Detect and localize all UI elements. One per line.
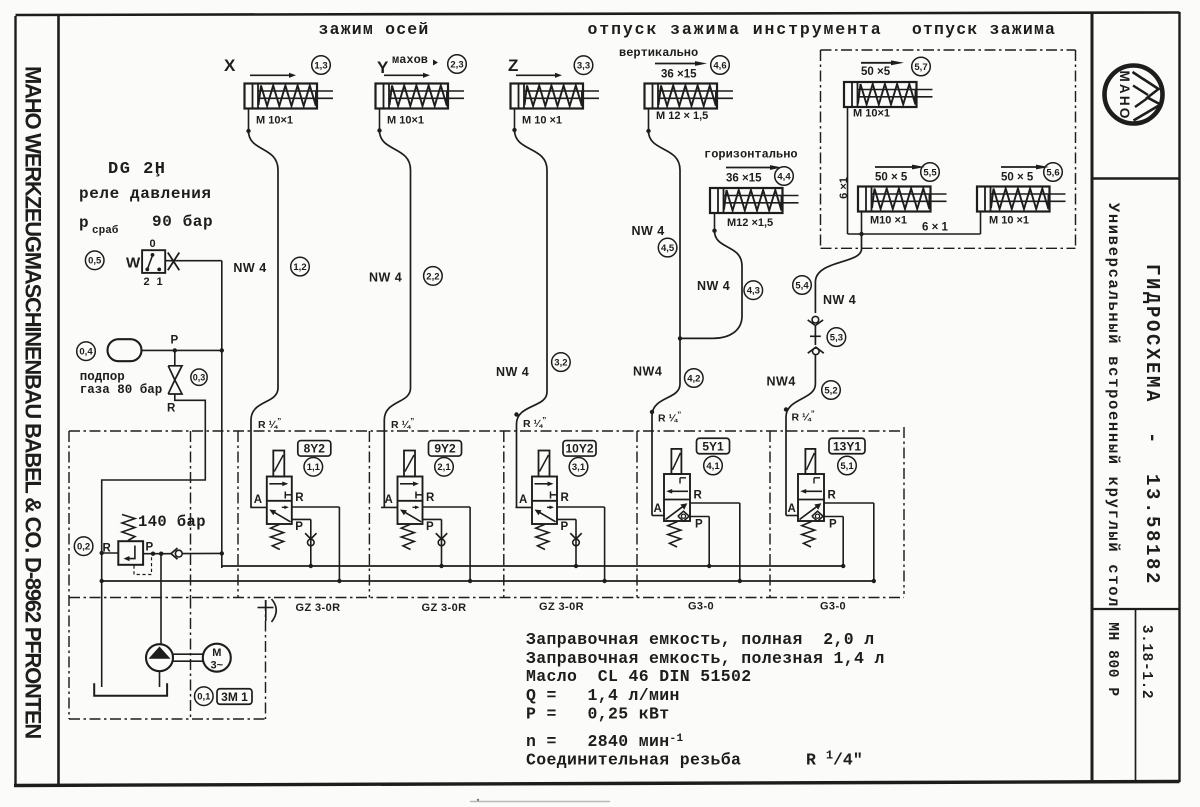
svg-text:X: X — [224, 56, 236, 75]
svg-text:R 1/4": R 1/4" — [806, 749, 863, 770]
svg-text:M 10 ×1: M 10 ×1 — [989, 215, 1029, 227]
tank — [94, 683, 167, 695]
svg-text:5,1: 5,1 — [840, 461, 854, 472]
wire from 5.x box down to valve 5.1 — [815, 234, 861, 313]
svg-text:A: A — [519, 494, 527, 506]
wire junction down to valve 4.1 — [652, 338, 680, 515]
wire Z cylinder to valve 3.1 — [515, 130, 548, 507]
svg-text:M 10×1: M 10×1 — [853, 108, 890, 120]
svg-text:P: P — [426, 521, 434, 533]
cylinder 5.5 — [875, 166, 914, 168]
svg-text:Y: Y — [377, 58, 389, 77]
svg-text:GZ 3-0R: GZ 3-0R — [422, 602, 467, 614]
svg-text:A: A — [654, 503, 662, 515]
svg-text:Универсальный встроенный кругл: Универсальный встроенный круглый стол — [1104, 203, 1122, 608]
svg-text:G3-0: G3-0 — [688, 601, 714, 613]
svg-text:МН 800 Р: МН 800 Р — [1104, 622, 1120, 696]
svg-text:M 10×1: M 10×1 — [256, 115, 293, 127]
svg-text:R: R — [694, 490, 703, 502]
return bus R — [102, 580, 874, 582]
svg-text:36 ×15: 36 ×15 — [661, 69, 697, 81]
svg-text:1: 1 — [157, 276, 163, 288]
relief valve 0.2 — [74, 537, 93, 556]
svg-text:махов: махов — [392, 53, 428, 67]
svg-text:5,7: 5,7 — [914, 62, 927, 73]
svg-text:6 × 1: 6 × 1 — [922, 222, 949, 234]
svg-text:n = 2840 мин-1: n = 2840 мин-1 — [526, 732, 683, 751]
svg-text:подпор: подпор — [80, 370, 125, 384]
svg-text:MAHO: MAHO — [1117, 70, 1132, 120]
svg-text:3,3: 3,3 — [577, 61, 590, 72]
svg-text:NW 4: NW 4 — [697, 279, 730, 293]
svg-text:сраб: сраб — [92, 224, 119, 237]
svg-text:GZ 3-0R: GZ 3-0R — [539, 601, 584, 613]
title block MAHO logo — [1092, 177, 1180, 180]
svg-text:0,4: 0,4 — [79, 347, 93, 358]
svg-text:R: R — [561, 492, 570, 504]
svg-text:W: W — [126, 255, 141, 272]
svg-text:Масло CL 46 DIN 51502: Масло CL 46 DIN 51502 — [526, 667, 752, 686]
svg-text:8Y2: 8Y2 — [304, 442, 326, 456]
shut-off valve 0.3 — [174, 350, 176, 365]
svg-text:P: P — [829, 519, 837, 531]
svg-text:P = 0,25 кВт: P = 0,25 кВт — [526, 705, 670, 724]
svg-text:р: р — [79, 214, 89, 232]
accumulator 0.4 — [77, 342, 96, 361]
breather symbol — [265, 600, 267, 621]
svg-text:DG 2Ḩ: DG 2Ḩ — [108, 160, 167, 179]
svg-text:5Y1: 5Y1 — [702, 439, 724, 453]
title block middle: drawing title — [1092, 608, 1180, 610]
svg-text:4,6: 4,6 — [713, 60, 726, 71]
return wire from 0.3 to tank line — [102, 394, 206, 687]
svg-text:10Y2: 10Y2 — [565, 442, 593, 456]
svg-text:9Y2: 9Y2 — [434, 442, 456, 456]
svg-text:R: R — [295, 492, 304, 504]
svg-text:Заправочная емкость, полезная: Заправочная емкость, полезная 1,4 л — [526, 649, 885, 668]
svg-text:13Y1: 13Y1 — [833, 439, 861, 453]
svg-text:NW 4: NW 4 — [369, 271, 402, 285]
svg-text:1,2: 1,2 — [293, 262, 306, 273]
svg-text:горизонтально: горизонтально — [704, 148, 798, 162]
svg-text:4,4: 4,4 — [777, 171, 791, 182]
svg-text:A: A — [254, 494, 262, 506]
svg-text:36 ×15: 36 ×15 — [726, 173, 762, 185]
dash-dot enclosure clamp release group — [821, 49, 1076, 51]
svg-text:3,1: 3,1 — [572, 462, 586, 473]
svg-text:2: 2 — [144, 276, 150, 288]
valve 1.1 solenoid 8Y2 — [273, 451, 284, 477]
svg-text:50 ×5: 50 ×5 — [861, 66, 891, 78]
svg-text:M 12 × 1,5: M 12 × 1,5 — [656, 110, 708, 122]
svg-text:A: A — [788, 503, 796, 515]
wire X cylinder to valve 1.1 — [249, 131, 279, 507]
valve 3.1 solenoid 10Y2 — [539, 451, 550, 477]
svg-text:G3-0: G3-0 — [820, 601, 846, 613]
svg-text:50 × 5: 50 × 5 — [1001, 172, 1034, 184]
valve 5.1 solenoid 13Y1 — [805, 449, 815, 474]
svg-text:Соединительная резьба: Соединительная резьба — [526, 751, 741, 770]
svg-text:P: P — [171, 335, 179, 347]
svg-text:R: R — [426, 492, 435, 504]
svg-text:ГИДРОСХЕМА - 13.58182: ГИДРОСХЕМА - 13.58182 — [1141, 264, 1163, 586]
svg-text:NW 4: NW 4 — [823, 293, 856, 307]
svg-text:5,3: 5,3 — [830, 333, 843, 344]
svg-text:M 10 ×1: M 10 ×1 — [522, 115, 562, 127]
svg-text:5,5: 5,5 — [923, 167, 937, 178]
svg-text:M: M — [212, 647, 221, 659]
svg-text:4,3: 4,3 — [747, 286, 760, 297]
cylinder 5.6 — [1001, 166, 1038, 168]
svg-text:2,3: 2,3 — [450, 59, 463, 70]
wire switch to riser — [165, 260, 222, 262]
svg-text:M12 ×1,5: M12 ×1,5 — [727, 217, 773, 229]
svg-text:NW4: NW4 — [633, 365, 662, 379]
svg-text:реле давления: реле давления — [79, 185, 212, 203]
svg-text:Заправочная емкость, полная 2: Заправочная емкость, полная 2,0 л — [526, 630, 875, 649]
svg-text:NW4: NW4 — [767, 375, 796, 389]
svg-text:5,4: 5,4 — [795, 280, 809, 291]
pump 0.1 — [146, 644, 173, 671]
svg-text:P: P — [295, 521, 303, 533]
bus wire inside box — [848, 233, 981, 235]
svg-text:3~: 3~ — [211, 660, 224, 672]
svg-text:5,2: 5,2 — [824, 385, 837, 396]
svg-text:50 × 5: 50 × 5 — [875, 172, 908, 184]
valve 4.1 solenoid 5Y1 — [671, 449, 681, 474]
svg-text:140 бар: 140 бар — [138, 513, 206, 531]
svg-text:GZ 3-0R: GZ 3-0R — [296, 602, 341, 614]
pressure bus P — [222, 565, 842, 567]
svg-text:NW 4: NW 4 — [233, 261, 266, 275]
svg-text:1,3: 1,3 — [314, 60, 327, 71]
wire cylinder 4.6 down — [649, 131, 681, 338]
svg-text:4,2: 4,2 — [687, 373, 700, 384]
svg-text:3M 1: 3M 1 — [221, 690, 248, 704]
svg-text:3,2: 3,2 — [554, 358, 567, 369]
cylinder 5.7 — [861, 62, 893, 64]
svg-text:4,5: 4,5 — [661, 243, 675, 254]
svg-text:отпуск зажима: отпуск зажима — [912, 20, 1056, 39]
svg-text:вертикально: вертикально — [619, 46, 698, 60]
svg-text:отпуск зажима инструмента: отпуск зажима инструмента — [587, 20, 882, 39]
svg-text:газа 80 бар: газа 80 бар — [80, 382, 163, 397]
scan speck — [477, 799, 479, 801]
svg-text:6 ×1: 6 ×1 — [838, 177, 850, 199]
dash-dot enclosure valve bays — [69, 430, 904, 432]
svg-text:0,1: 0,1 — [197, 692, 211, 703]
svg-text:3.18-1.2: 3.18-1.2 — [1138, 625, 1154, 699]
svg-text:R: R — [167, 403, 176, 415]
svg-text:зажим осей: зажим осей — [318, 20, 429, 39]
wire cylinder 4.4 joining — [680, 231, 742, 339]
svg-text:A: A — [385, 494, 393, 506]
svg-text:P: P — [695, 519, 703, 531]
svg-text:MAHO WERKZEUGMASCHINENBAU BABE: MAHO WERKZEUGMASCHINENBAU BABEL & CO. D-… — [21, 66, 46, 738]
svg-text:90 бар: 90 бар — [152, 213, 213, 231]
check valve 5.3 pair — [814, 326, 816, 345]
svg-text:NW 4: NW 4 — [632, 224, 665, 238]
svg-text:0: 0 — [150, 238, 156, 250]
svg-text:2,1: 2,1 — [437, 462, 451, 473]
svg-text:0,2: 0,2 — [77, 542, 90, 553]
border frame — [14, 16, 16, 786]
svg-text:Q = 1,4 л/мин: Q = 1,4 л/мин — [526, 686, 680, 705]
check valve 0.x inline — [171, 548, 178, 559]
svg-text:R: R — [828, 490, 837, 502]
svg-text:2,2: 2,2 — [426, 271, 439, 282]
svg-text:0,3: 0,3 — [193, 372, 206, 382]
valve 2.1 solenoid 9Y2 — [404, 451, 415, 477]
title block bottom: sheet numbers — [1135, 609, 1137, 782]
svg-text:5,6: 5,6 — [1046, 167, 1059, 178]
svg-text:Z: Z — [508, 56, 518, 75]
svg-text:1,1: 1,1 — [307, 462, 321, 473]
svg-text:M 10×1: M 10×1 — [387, 115, 424, 127]
svg-text:0,5: 0,5 — [88, 256, 102, 267]
svg-text:4,1: 4,1 — [706, 461, 720, 472]
wire Y cylinder to valve 2.1 — [380, 131, 411, 508]
pressure switch 0.5 symbol — [85, 251, 104, 270]
relief wiring — [102, 552, 119, 554]
svg-text:NW 4: NW 4 — [496, 365, 529, 379]
motor M 3~ — [203, 644, 231, 672]
svg-text:M10 ×1: M10 ×1 — [870, 215, 907, 227]
svg-text:P: P — [561, 521, 569, 533]
